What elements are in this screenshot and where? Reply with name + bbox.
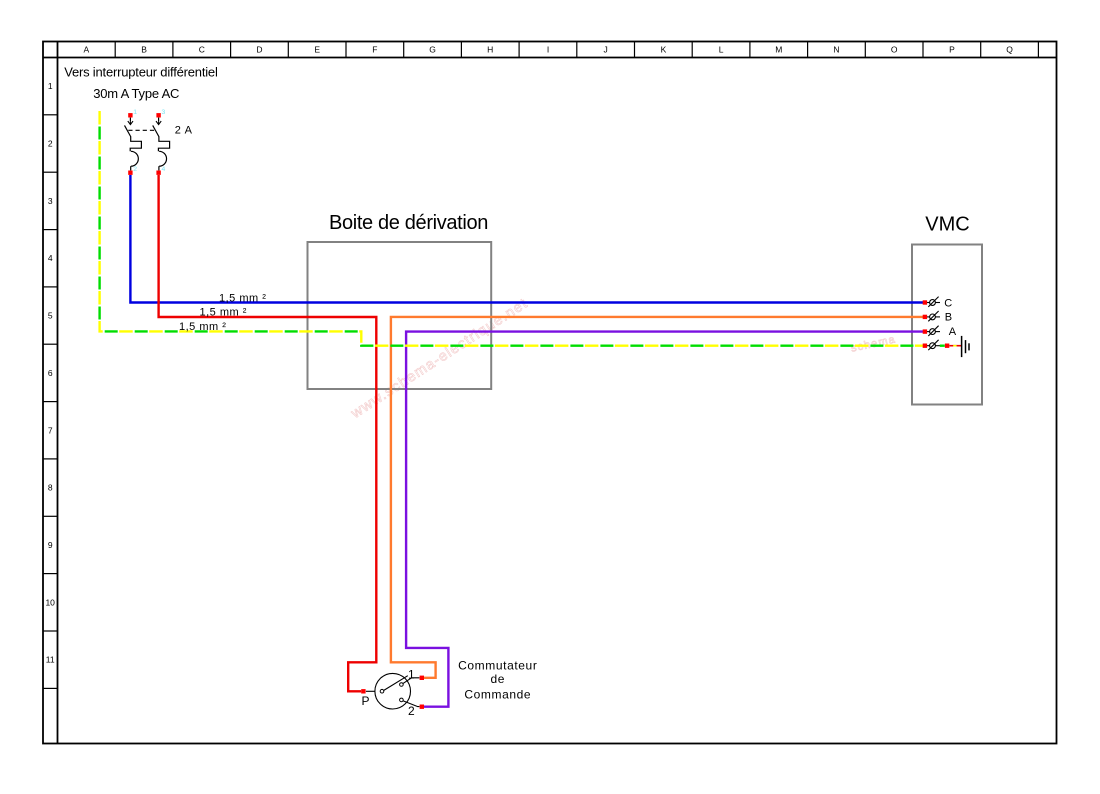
svg-text:P: P bbox=[361, 694, 369, 708]
junction box Boite de derivation bbox=[308, 242, 492, 389]
svg-text:2: 2 bbox=[48, 139, 53, 149]
wire switched orange bbox=[391, 317, 923, 678]
earth link wire bbox=[940, 344, 962, 348]
wire phase red bbox=[159, 175, 377, 691]
svg-text:9: 9 bbox=[48, 540, 53, 550]
svg-text:B: B bbox=[945, 311, 952, 323]
terminal C bbox=[923, 297, 940, 307]
switch lead 2 bbox=[403, 701, 424, 709]
terminal B bbox=[923, 311, 940, 321]
svg-text:de: de bbox=[491, 672, 506, 686]
commutator switch body bbox=[375, 673, 411, 709]
ground symbol bbox=[962, 336, 969, 357]
svg-text:C: C bbox=[199, 45, 205, 55]
switch contact P bbox=[380, 689, 384, 693]
svg-text:3: 3 bbox=[162, 109, 166, 116]
svg-text:L: L bbox=[719, 45, 724, 55]
svg-text:J: J bbox=[603, 45, 607, 55]
svg-text:6: 6 bbox=[48, 368, 53, 378]
svg-text:A: A bbox=[83, 45, 89, 55]
svg-text:2: 2 bbox=[133, 166, 137, 173]
switch contact 2 bbox=[400, 698, 404, 702]
svg-text:D: D bbox=[256, 45, 262, 55]
svg-text:Commutateur: Commutateur bbox=[458, 658, 537, 672]
svg-text:O: O bbox=[891, 45, 898, 55]
switch lever bbox=[384, 676, 408, 691]
svg-text:1,5 mm ²: 1,5 mm ² bbox=[219, 292, 266, 304]
switch lead 1 bbox=[403, 676, 424, 684]
circuit breaker pole 1 bbox=[125, 113, 142, 175]
svg-text:K: K bbox=[661, 45, 667, 55]
svg-text:H: H bbox=[487, 45, 493, 55]
svg-text:I: I bbox=[547, 45, 549, 55]
svg-text:7: 7 bbox=[48, 425, 53, 435]
svg-text:2 A: 2 A bbox=[175, 125, 193, 137]
svg-text:E: E bbox=[314, 45, 320, 55]
svg-text:5: 5 bbox=[48, 311, 53, 321]
svg-text:11: 11 bbox=[46, 655, 55, 665]
svg-text:8: 8 bbox=[48, 483, 53, 493]
svg-text:3: 3 bbox=[48, 196, 53, 206]
switch contact 1 bbox=[400, 683, 404, 687]
earth terminal bbox=[923, 340, 940, 350]
wire earth green-yellow bbox=[100, 111, 923, 346]
svg-text:Vers interrupteur différentiel: Vers interrupteur différentiel bbox=[64, 64, 218, 79]
svg-text:1,5 mm ²: 1,5 mm ² bbox=[179, 321, 226, 333]
svg-text:30m A Type AC: 30m A Type AC bbox=[93, 86, 179, 101]
label Commutateur de Commande bbox=[458, 658, 537, 701]
svg-text:G: G bbox=[429, 45, 436, 55]
svg-text:4: 4 bbox=[162, 166, 166, 173]
svg-text:Q: Q bbox=[1006, 45, 1013, 55]
terminal A bbox=[923, 326, 940, 336]
watermark bbox=[348, 295, 897, 422]
svg-text:A: A bbox=[949, 326, 957, 338]
svg-text:10: 10 bbox=[45, 597, 55, 607]
svg-text:4: 4 bbox=[48, 253, 53, 263]
svg-text:C: C bbox=[944, 297, 952, 309]
svg-text:Boite de dérivation: Boite de dérivation bbox=[329, 212, 488, 234]
svg-text:VMC: VMC bbox=[925, 214, 969, 236]
svg-text:2: 2 bbox=[408, 704, 415, 718]
VMC unit box bbox=[912, 245, 982, 405]
svg-text:1: 1 bbox=[48, 81, 53, 91]
wire switched purple bbox=[406, 332, 923, 707]
svg-text:N: N bbox=[833, 45, 839, 55]
circuit breaker pole 2 bbox=[153, 113, 170, 175]
svg-text:1,5 mm ²: 1,5 mm ² bbox=[200, 307, 247, 319]
svg-text:P: P bbox=[949, 45, 955, 55]
svg-text:1: 1 bbox=[408, 668, 415, 682]
svg-text:1: 1 bbox=[133, 109, 137, 116]
svg-text:F: F bbox=[372, 45, 377, 55]
breaker mechanical link bbox=[128, 129, 155, 131]
svg-text:B: B bbox=[141, 45, 147, 55]
svg-text:M: M bbox=[775, 45, 782, 55]
wire neutral blue bbox=[130, 175, 923, 303]
switch terminal P bbox=[361, 689, 375, 693]
svg-text:Commande: Commande bbox=[464, 688, 531, 702]
